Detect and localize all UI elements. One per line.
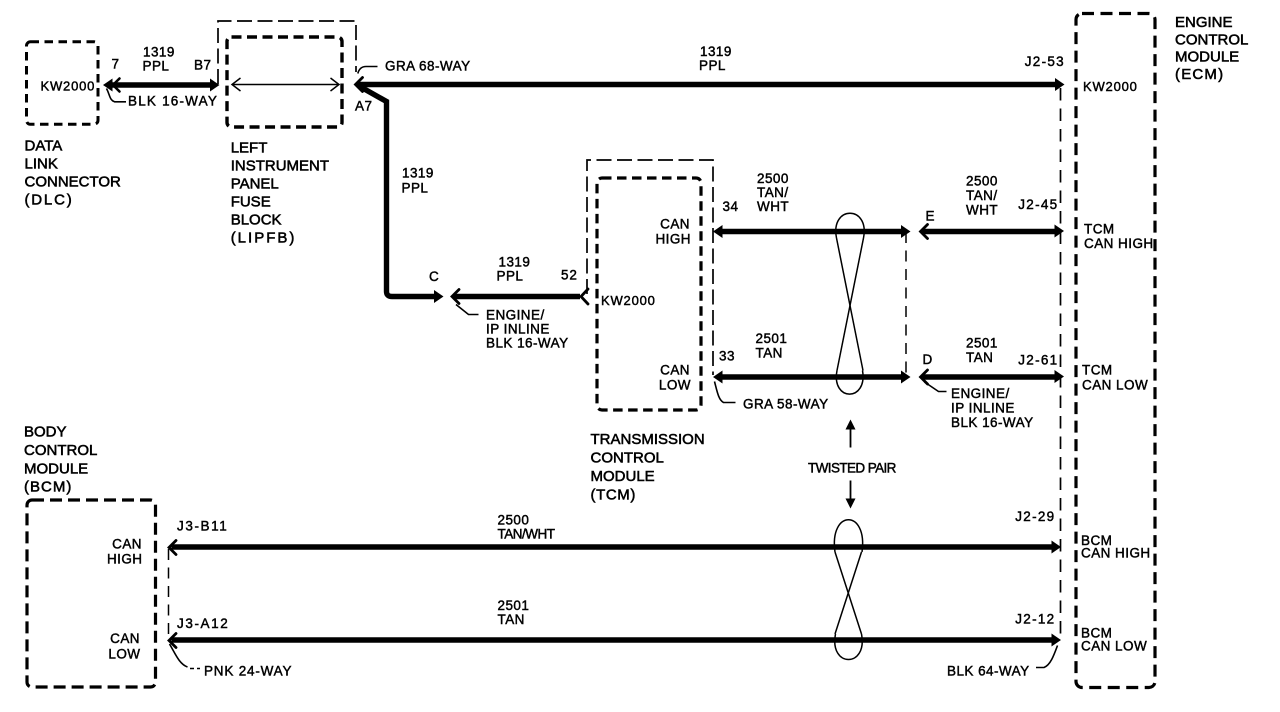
arrowhead at J2-53 — [1055, 78, 1065, 91]
LIPFB box — [227, 37, 342, 127]
svg-text:7: 7 — [112, 57, 120, 72]
svg-text:CAN: CAN — [110, 631, 140, 646]
svg-text:TCM: TCM — [1084, 222, 1115, 237]
svg-text:34: 34 — [723, 199, 739, 214]
DLC connector box — [27, 42, 99, 125]
node A7 chevron — [356, 78, 363, 92]
leader GRA 68-WAY — [358, 67, 378, 74]
arrowhead at DLC pin 7 — [103, 79, 113, 92]
svg-text:BLK 16-WAY: BLK 16-WAY — [486, 336, 569, 351]
svg-text:FUSE: FUSE — [231, 194, 271, 211]
svg-text:2500: 2500 — [966, 174, 998, 189]
svg-text:MODULE: MODULE — [24, 460, 88, 477]
svg-text:1319: 1319 — [700, 44, 732, 59]
svg-text:KW2000: KW2000 — [41, 79, 96, 94]
DLC title — [25, 138, 122, 209]
svg-text:2501: 2501 — [966, 336, 998, 351]
arrowhead at TCM 34 — [713, 225, 723, 238]
svg-text:CAN: CAN — [112, 537, 142, 552]
svg-text:C: C — [429, 269, 439, 284]
svg-text:CONTROL: CONTROL — [591, 450, 664, 467]
wire TCM 33 to D (2501 TAN) — [719, 374, 903, 379]
svg-text:A7: A7 — [355, 99, 372, 114]
arrowhead at TCM 33 — [713, 371, 723, 384]
node J3-A12 chevron — [169, 634, 176, 648]
svg-text:BLK 64-WAY: BLK 64-WAY — [947, 664, 1030, 679]
ECM title — [1175, 14, 1248, 83]
svg-text:LINK: LINK — [25, 156, 58, 173]
svg-text:PNK 24-WAY: PNK 24-WAY — [204, 664, 292, 679]
wire branch A7 down to C — [359, 86, 434, 297]
svg-text:DATA: DATA — [25, 138, 63, 155]
wire BCM CAN LOW to ECM J2-12 (2501 TAN) — [172, 637, 1053, 643]
svg-text:CONTROL: CONTROL — [1175, 31, 1248, 48]
svg-text:PPL: PPL — [402, 181, 429, 196]
svg-text:HIGH: HIGH — [655, 232, 691, 247]
TCM outer connector outline — [587, 160, 713, 375]
twisted pair symbol (BCM pair) — [834, 520, 862, 660]
svg-text:(LIPFB): (LIPFB) — [231, 230, 297, 247]
arrowhead at J2-12 — [1052, 634, 1062, 647]
arrowhead at C — [434, 290, 444, 303]
svg-text:J3-A12: J3-A12 — [177, 616, 229, 631]
wire DLC to LIPFB (1319 PPL / BLK 16-WAY) — [108, 82, 213, 87]
svg-text:BLOCK: BLOCK — [231, 212, 282, 229]
BCM box — [27, 500, 156, 687]
svg-text:MODULE: MODULE — [1175, 49, 1239, 66]
svg-text:BLK 16-WAY: BLK 16-WAY — [128, 94, 218, 109]
svg-text:2501: 2501 — [756, 331, 788, 346]
svg-text:1319: 1319 — [143, 45, 175, 60]
chevron at TCM 52 — [581, 289, 588, 304]
svg-text:CAN: CAN — [660, 217, 690, 232]
svg-text:PPL: PPL — [497, 268, 524, 283]
svg-text:WHT: WHT — [757, 199, 789, 214]
svg-text:CAN HIGH: CAN HIGH — [1084, 236, 1154, 251]
wire BCM CAN HIGH to ECM J2-29 (2500 TAN/WHT) — [172, 544, 1053, 550]
svg-text:TRANSMISSION: TRANSMISSION — [591, 431, 705, 448]
inline connector E-D dashed line — [905, 232, 907, 376]
ECM connector J2 dashed line — [1060, 88, 1062, 640]
wire main 1319 PPL to ECM J2-53 — [357, 82, 1056, 87]
arrowhead at D (left side) — [901, 371, 911, 384]
svg-text:2500: 2500 — [757, 171, 789, 186]
svg-text:ENGINE: ENGINE — [1175, 14, 1233, 31]
twisted pair up arrow — [850, 428, 852, 448]
svg-text:PANEL: PANEL — [231, 176, 279, 193]
svg-text:ENGINE/: ENGINE/ — [486, 308, 545, 323]
svg-text:J3-B11: J3-B11 — [177, 519, 228, 534]
svg-text:PPL: PPL — [143, 59, 170, 74]
node E chevron — [921, 225, 928, 239]
svg-text:KW2000: KW2000 — [601, 293, 656, 308]
LIPFB title — [231, 140, 329, 247]
svg-text:LEFT: LEFT — [231, 140, 268, 157]
twisted pair symbol (TCM pair) — [836, 213, 864, 394]
svg-text:CAN LOW: CAN LOW — [1081, 639, 1147, 654]
wire C to TCM pin 52 — [454, 294, 580, 299]
svg-text:LOW: LOW — [659, 378, 691, 393]
svg-text:(TCM): (TCM) — [591, 487, 636, 504]
node D chevron — [921, 370, 928, 384]
svg-text:TAN: TAN — [966, 350, 993, 365]
leader GRA 58-WAY — [715, 382, 736, 403]
svg-text:B7: B7 — [194, 58, 211, 73]
arrowhead at E (left side) — [901, 225, 911, 238]
svg-text:(BCM): (BCM) — [24, 479, 72, 496]
wire D to ECM J2-61 — [923, 374, 1056, 379]
svg-text:WHT: WHT — [966, 203, 998, 218]
svg-text:CAN: CAN — [660, 363, 690, 378]
LIPFB internal bus arrow — [232, 78, 339, 91]
svg-text:IP INLINE: IP INLINE — [486, 322, 550, 337]
svg-text:MODULE: MODULE — [591, 468, 655, 485]
wire TCM 34 to E (2500 TAN/WHT) — [719, 229, 903, 234]
svg-text:(ECM): (ECM) — [1175, 66, 1224, 83]
leader BLK 64-WAY — [1036, 646, 1058, 668]
leader ENGINE/IP INLINE (D) — [925, 382, 947, 392]
svg-text:IP INLINE: IP INLINE — [951, 401, 1015, 416]
svg-text:TAN/WHT: TAN/WHT — [498, 527, 555, 542]
arrowhead at LIPFB pin B7 — [210, 79, 220, 92]
arrowhead at J2-45 — [1055, 225, 1065, 238]
svg-text:LOW: LOW — [108, 647, 140, 662]
svg-text:2501: 2501 — [498, 598, 530, 613]
svg-text:J2-29: J2-29 — [1015, 509, 1055, 524]
svg-text:J2-53: J2-53 — [1025, 54, 1065, 69]
svg-text:J2-45: J2-45 — [1018, 197, 1058, 212]
svg-text:PPL: PPL — [699, 58, 726, 73]
svg-text:BLK 16-WAY: BLK 16-WAY — [951, 415, 1034, 430]
svg-text:GRA 68-WAY: GRA 68-WAY — [385, 59, 471, 74]
leader PNK 24-WAY — [170, 644, 188, 667]
svg-text:HIGH: HIGH — [107, 552, 143, 567]
svg-text:J2-12: J2-12 — [1015, 612, 1055, 627]
svg-text:CAN HIGH: CAN HIGH — [1081, 546, 1151, 561]
svg-text:(DLC): (DLC) — [25, 192, 74, 209]
svg-text:INSTRUMENT: INSTRUMENT — [231, 158, 329, 175]
wire E to ECM J2-45 — [923, 229, 1056, 234]
svg-text:52: 52 — [561, 268, 578, 283]
arrowhead at J2-61 — [1055, 370, 1065, 383]
TCM box — [597, 178, 701, 410]
svg-text:33: 33 — [719, 349, 735, 364]
svg-text:BODY: BODY — [24, 424, 67, 441]
leader ENGINE/IP INLINE (C) — [456, 305, 479, 315]
ECM box — [1076, 14, 1155, 688]
svg-text:TAN: TAN — [756, 346, 783, 361]
BCM title — [24, 424, 97, 496]
LIPFB outer connector outline — [218, 21, 356, 84]
svg-text:CONTROL: CONTROL — [24, 442, 97, 459]
svg-text:D: D — [923, 352, 933, 367]
svg-text:CAN LOW: CAN LOW — [1082, 378, 1148, 393]
BCM connector dashed line — [168, 549, 170, 637]
svg-text:CONNECTOR: CONNECTOR — [25, 174, 122, 191]
svg-text:E: E — [926, 209, 935, 224]
svg-text:TAN/: TAN/ — [757, 185, 789, 200]
twisted pair down arrow — [850, 481, 852, 500]
svg-text:1319: 1319 — [499, 255, 531, 270]
svg-text:TWISTED PAIR: TWISTED PAIR — [808, 461, 897, 476]
svg-text:TAN: TAN — [498, 612, 525, 627]
svg-text:2500: 2500 — [498, 513, 530, 528]
svg-text:TAN/: TAN/ — [966, 188, 998, 203]
svg-text:1319: 1319 — [402, 166, 434, 181]
svg-text:GRA 58-WAY: GRA 58-WAY — [743, 397, 829, 412]
svg-text:J2-61: J2-61 — [1018, 353, 1058, 368]
svg-text:TCM: TCM — [1082, 363, 1113, 378]
leader BLK 16-WAY — [107, 89, 127, 102]
TCM title — [591, 431, 705, 504]
node C chevron — [452, 290, 459, 304]
node J3-B11 chevron — [169, 541, 176, 555]
svg-text:ENGINE/: ENGINE/ — [951, 386, 1010, 401]
arrowhead at J2-29 — [1052, 541, 1062, 554]
svg-text:KW2000: KW2000 — [1083, 79, 1138, 94]
